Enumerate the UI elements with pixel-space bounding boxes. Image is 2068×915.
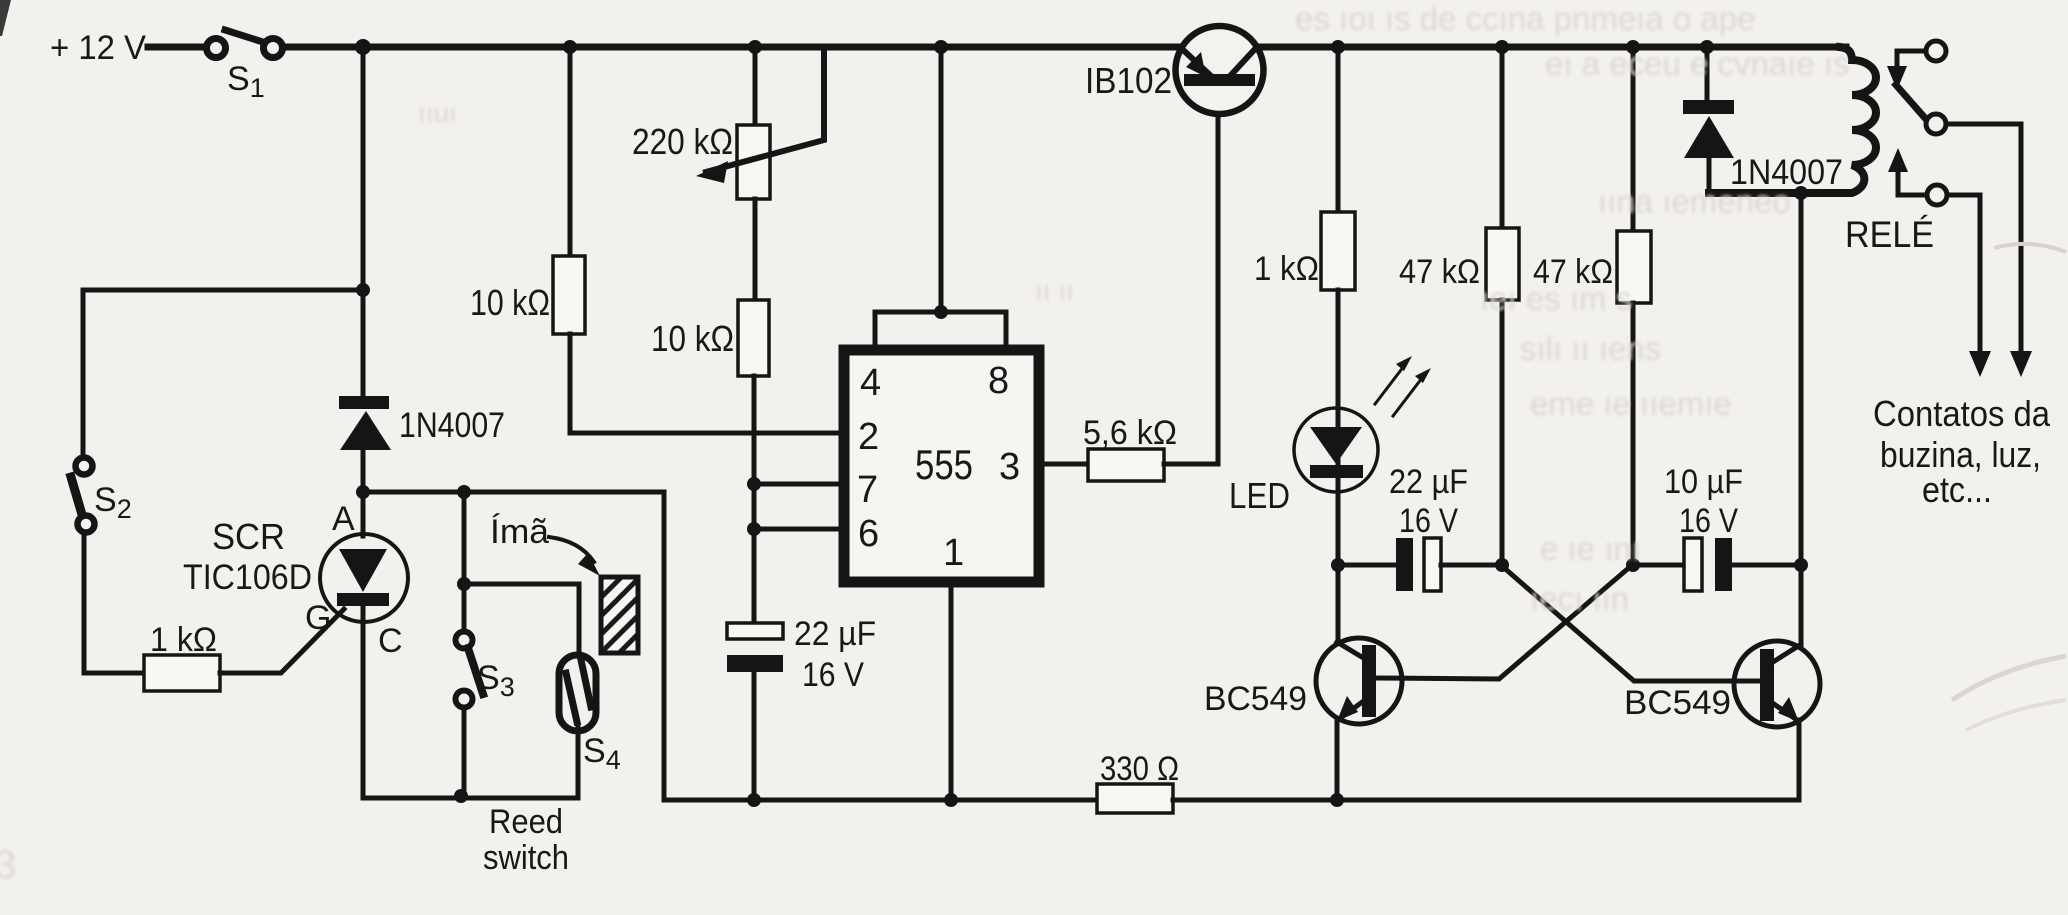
svg-text:16 V: 16 V bbox=[1399, 502, 1458, 540]
svg-text:2: 2 bbox=[858, 416, 879, 458]
svg-text:8: 8 bbox=[988, 360, 1009, 402]
svg-text:330 Ω: 330 Ω bbox=[1100, 750, 1179, 788]
capacitor C3 10uF coupling bbox=[1684, 538, 1732, 591]
svg-text:SCR: SCR bbox=[212, 516, 285, 557]
wire relay middle contact out bbox=[1946, 124, 2021, 352]
wire Q3 collector lead bbox=[1799, 565, 1804, 645]
svg-text:6: 6 bbox=[858, 513, 879, 555]
resistor R 330 ohm bbox=[1097, 784, 1173, 813]
resistor R 10k left bbox=[553, 256, 585, 334]
svg-text:+ 12 V: + 12 V bbox=[50, 29, 146, 67]
relay armature lever bbox=[1896, 85, 1925, 118]
transistor Q1 IB102 bbox=[1176, 26, 1264, 114]
node reed branch bbox=[457, 577, 471, 591]
wire C1 to ground bbox=[752, 672, 757, 800]
node rail-555 bbox=[934, 40, 948, 54]
svg-text:eme ıe ııemıe: eme ıe ııemıe bbox=[1530, 385, 1732, 422]
svg-text:220 kΩ: 220 kΩ bbox=[632, 121, 733, 162]
wire pot to 10k bbox=[753, 199, 758, 300]
op-amp U1 555 box bbox=[844, 350, 1039, 582]
wire LED branch top bbox=[1336, 47, 1341, 212]
wire pin3 stub bbox=[1039, 462, 1088, 467]
wire pot branch top bbox=[753, 47, 758, 125]
svg-text:16 V: 16 V bbox=[1679, 502, 1738, 540]
wire C3 to Q3 collector node bbox=[1732, 563, 1801, 568]
wire Q2 collector node horizontal bbox=[1338, 563, 1396, 568]
wire pin1 lead bbox=[949, 582, 954, 800]
transistor Q2 BC549 left bbox=[1316, 638, 1402, 724]
svg-text:etc...: etc... bbox=[1922, 469, 1992, 510]
wire +12V rail left of S1 bbox=[148, 44, 208, 51]
wire relay bottom contact with arrow bbox=[1888, 148, 1926, 195]
svg-text:10 kΩ: 10 kΩ bbox=[651, 318, 734, 359]
SCR TIC106D bbox=[320, 534, 408, 622]
wire S3 bottom lead bbox=[462, 707, 467, 796]
wire ground bottom right of 330 bbox=[1173, 798, 1799, 803]
relay contact middle circle bbox=[1926, 114, 1946, 134]
node C1 ground bbox=[747, 793, 761, 807]
svg-text:e ıe ını: e ıe ını bbox=[1540, 530, 1641, 567]
wire 1k to LED to Q2 bbox=[1336, 290, 1341, 643]
node rail-47k2 bbox=[1626, 40, 1640, 54]
wire 10k left top lead bbox=[568, 47, 573, 256]
svg-text:eı a eceu e cvnaıe ıs: eı a eceu e cvnaıe ıs bbox=[1545, 45, 1850, 82]
relay coil bbox=[1709, 47, 1876, 193]
svg-text:BC549: BC549 bbox=[1204, 680, 1307, 718]
wire 47k first bottom bbox=[1500, 300, 1505, 565]
wire cross coupling diagonal right-down bbox=[1502, 566, 1761, 681]
scan crease right margin bbox=[1994, 244, 2066, 252]
wire 10k left to pin2 bbox=[570, 334, 846, 433]
wire left branch horizontal to S2 bbox=[83, 288, 363, 293]
switch S1 bbox=[207, 30, 283, 58]
wire 5.6k to IB102 base bbox=[1164, 86, 1218, 464]
wire +12V top rail right of Q1 bbox=[1262, 44, 1846, 51]
scan crease bottom right bbox=[1952, 656, 2066, 700]
node rail-1k bbox=[1331, 40, 1345, 54]
node wireA-S3 bbox=[457, 485, 471, 499]
svg-text:es ıoı ıs de ccına pnmeıa o: es ıoı ıs de ccına pnmeıa o ape bbox=[1295, 0, 1755, 37]
wire main ground bottom bbox=[664, 798, 1097, 803]
arrow Ima pointer bbox=[549, 537, 600, 576]
resistor R 47k second bbox=[1617, 231, 1651, 303]
svg-text:Ímã: Ímã bbox=[490, 513, 549, 551]
wire 47k2 node to C3 bbox=[1633, 563, 1684, 568]
node pin6 bbox=[747, 522, 761, 536]
wire relay bottom contact out bbox=[1947, 195, 1980, 352]
svg-text:A: A bbox=[332, 500, 355, 538]
node rail-D2 bbox=[1700, 40, 1714, 54]
diode D2 1N4007 relay bbox=[1683, 100, 1734, 193]
svg-text:10 µF: 10 µF bbox=[1664, 463, 1743, 501]
wire reed branch horizontal bbox=[464, 584, 579, 656]
node bracket bbox=[934, 305, 948, 319]
svg-text:1: 1 bbox=[943, 532, 964, 574]
wire S3 branch vertical bbox=[462, 492, 467, 632]
svg-text:G: G bbox=[305, 599, 331, 637]
node S3 bottom bbox=[454, 789, 468, 803]
svg-text:5,6 kΩ: 5,6 kΩ bbox=[1083, 414, 1177, 452]
wire A from SCR anode node to the right bbox=[363, 492, 664, 800]
relay contact top circle bbox=[1926, 41, 1946, 61]
svg-text:1 kΩ: 1 kΩ bbox=[1254, 250, 1319, 288]
svg-text:ııuı: ııuı bbox=[418, 97, 457, 128]
wire cross coupling diagonal left-down bbox=[1375, 566, 1631, 679]
wire Q2 emitter to ground bbox=[1335, 720, 1340, 800]
svg-text:3: 3 bbox=[999, 446, 1020, 488]
wire cathode loop bottom bbox=[363, 796, 578, 801]
node SCR anode wire A bbox=[356, 485, 370, 499]
resistor R 1k LED bbox=[1321, 212, 1355, 290]
svg-text:1 kΩ: 1 kΩ bbox=[150, 621, 217, 659]
svg-text:BC549: BC549 bbox=[1624, 684, 1731, 722]
svg-text:16 V: 16 V bbox=[802, 656, 864, 694]
svg-text:4: 4 bbox=[860, 362, 881, 404]
resistor R 1k gate bbox=[144, 655, 220, 691]
wire 47k first top bbox=[1500, 47, 1505, 228]
arrow contact out 1 bbox=[2010, 351, 2032, 377]
svg-text:7: 7 bbox=[857, 469, 878, 511]
wire S2 lower lead bbox=[84, 533, 144, 673]
wire 47k second top bbox=[1631, 47, 1636, 231]
svg-text:10 kΩ: 10 kΩ bbox=[470, 282, 550, 323]
wire 555 supply drop bbox=[939, 47, 944, 312]
svg-text:TIC106D: TIC106D bbox=[183, 558, 312, 597]
magnet Ima bbox=[601, 577, 638, 653]
switch S3 bbox=[456, 632, 484, 708]
wire 555 pins 4-8 bracket bbox=[875, 312, 1006, 350]
wire relay top contact with arrow bbox=[1887, 51, 1925, 90]
node left branch bbox=[356, 283, 370, 297]
svg-text:LED: LED bbox=[1229, 475, 1290, 516]
wire 47k second bottom bbox=[1631, 303, 1636, 565]
scan mark top-left corner bbox=[0, 0, 11, 36]
svg-text:Reed: Reed bbox=[489, 803, 563, 841]
arrow LED light ray 1 bbox=[1375, 356, 1412, 404]
node rail-10k bbox=[563, 40, 577, 54]
wire 10k2 down to cap bbox=[752, 376, 757, 623]
resistor R 5.6k bbox=[1088, 449, 1164, 481]
arrow LED light ray 2 bbox=[1393, 368, 1431, 416]
svg-text:switch: switch bbox=[483, 839, 569, 877]
wire SCR cathode down bbox=[361, 606, 366, 798]
wire gate resistor to SCR gate bbox=[220, 609, 344, 673]
wire C2 to 47k node bbox=[1441, 563, 1502, 568]
svg-text:Contatos da: Contatos da bbox=[1873, 393, 2051, 434]
svg-text:22 µF: 22 µF bbox=[794, 615, 876, 653]
wire pin6 stub bbox=[754, 527, 846, 532]
svg-text:sılı ıı ıens: sılı ıı ıens bbox=[1520, 330, 1661, 367]
node rail-47k1 bbox=[1495, 40, 1509, 54]
wire relay coil bottom bbox=[1709, 191, 1852, 196]
svg-text:ıına ıemeneo: ıına ıemeneo bbox=[1598, 183, 1791, 220]
switch S2 bbox=[71, 458, 95, 533]
wire S2 upper lead bbox=[81, 290, 86, 457]
svg-text:47 kΩ: 47 kΩ bbox=[1399, 253, 1480, 291]
node Q2 collector bbox=[1331, 558, 1345, 572]
svg-text:3: 3 bbox=[0, 843, 16, 887]
svg-text:1N4007: 1N4007 bbox=[399, 406, 505, 445]
wire Q3 emitter to ground bbox=[1797, 720, 1802, 800]
node Q2 emitter ground bbox=[1330, 793, 1344, 807]
node pin1 ground bbox=[944, 793, 958, 807]
svg-text:IB102: IB102 bbox=[1085, 60, 1172, 101]
diode D1 1N4007 left bbox=[339, 396, 391, 536]
node 47k2 bottom bbox=[1626, 558, 1640, 572]
wire +12V top rail bbox=[282, 44, 1182, 51]
svg-text:ıeı es ım s: ıeı es ım s bbox=[1480, 280, 1632, 317]
wire S4 bottom lead bbox=[576, 727, 581, 798]
svg-text:RELÉ: RELÉ bbox=[1845, 214, 1934, 255]
wire SCR anode branch from rail bbox=[361, 47, 366, 396]
capacitor C2 22uF coupling bbox=[1396, 538, 1441, 591]
arrow contact out 2 bbox=[1969, 351, 1991, 377]
wire diode D2 top lead bbox=[1705, 47, 1710, 100]
node pin7 bbox=[747, 477, 761, 491]
node 47k1 bottom bbox=[1495, 558, 1509, 572]
svg-text:C: C bbox=[378, 622, 403, 660]
svg-text:555: 555 bbox=[915, 441, 973, 488]
potentiometer 220k bbox=[696, 47, 824, 199]
wire relay drive vertical bbox=[1799, 193, 1804, 565]
LED D3 bbox=[1294, 408, 1378, 492]
node Q3 collector bbox=[1794, 558, 1808, 572]
reed switch S4 bbox=[559, 655, 596, 731]
wire pin7 stub bbox=[754, 482, 846, 487]
node rail-pot bbox=[748, 40, 762, 54]
node relay drive bbox=[1794, 186, 1808, 200]
resistor R 47k first bbox=[1486, 228, 1519, 300]
capacitor C1 22uF bbox=[727, 623, 783, 672]
resistor R 10k second bbox=[738, 300, 769, 376]
svg-text:ıı ıı: ıı ıı bbox=[1035, 275, 1074, 306]
svg-text:ıecı ıın: ıecı ıın bbox=[1530, 580, 1629, 617]
relay contact bottom circle bbox=[1927, 185, 1947, 205]
svg-text:22 µF: 22 µF bbox=[1389, 463, 1468, 501]
node rail-SCR bbox=[355, 39, 371, 55]
transistor Q3 BC549 right bbox=[1734, 641, 1820, 727]
